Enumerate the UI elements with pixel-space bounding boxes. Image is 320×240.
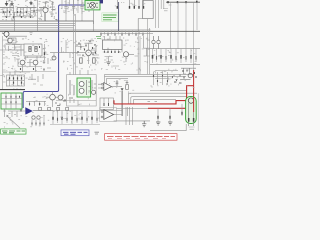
right rail y48.5 (150, 48, 200, 50)
parts in green box grid (1, 93, 22, 109)
resistor R10 (29, 47, 31, 52)
wire y66.5 under transistors (18, 66, 42, 68)
label specks right caps (154, 50, 197, 64)
right mid rail y90.6 (150, 90, 186, 92)
parts left of Q4 (78, 40, 100, 55)
label text specks top-left (1, 0, 59, 20)
connector arrow C top-left (30, 1, 32, 5)
bottom right rail (150, 124, 186, 131)
connector blue square (100, 0, 103, 3)
label blue bottom-middle (61, 130, 89, 136)
wire top-right rail (166, 1, 200, 3)
right cluster stems (154, 72, 170, 85)
bottom caps bodies B (58, 118, 98, 121)
label specks left block (0, 72, 27, 90)
parts right of U2 (116, 80, 129, 86)
label numbers above red line (148, 100, 158, 102)
transistor Q9 (92, 90, 96, 94)
transistor Q12 (8, 38, 13, 43)
blobs right of green box (30, 103, 40, 105)
component ticks in box (30, 46, 40, 50)
resistor on rail D (66, 108, 69, 111)
wire grey y108.3 segment (117, 107, 149, 109)
wire double vertical x73-75 (74, 0, 76, 75)
wire x127.5 vertical (127, 107, 129, 116)
label right-top specks (163, 5, 172, 11)
wire y36 left (9, 35, 27, 37)
wire Q2 Q3 legs (14, 59, 36, 72)
left block box (7, 75, 25, 86)
wires module top (70, 70, 88, 103)
wire Q6 leads (46, 92, 58, 108)
wire left edge vertical (2, 36, 4, 90)
op-amp U4 (104, 110, 114, 120)
thick dark wire y89.5 (0, 89, 25, 91)
wire U4 out (114, 115, 150, 121)
cluster right parts (180, 68, 196, 79)
capacitor C4 (80, 0, 83, 14)
red net lower path (148, 104, 187, 108)
electrolytic stems right (153, 49, 197, 63)
wire y57.5 below box (24, 57, 46, 59)
wire into module (138, 19, 142, 32)
ground below IC (106, 62, 110, 65)
bus line5 (0, 29, 151, 31)
wire stubs Q4 cluster (76, 41, 100, 58)
resistor on rail C (57, 108, 60, 111)
red net main path (114, 86, 194, 104)
nested wire 1 (128, 93, 197, 104)
lamp box highlight (85, 1, 100, 10)
label green specks x97 y37 (96, 37, 101, 39)
label specks IC area (100, 37, 149, 71)
bus mid-right 1 (105, 73, 194, 75)
bus line3 (0, 25, 75, 27)
resistor R12 (80, 58, 83, 63)
lamp symbol (87, 2, 98, 8)
wire vertical x62 x69 x78 (62, 0, 82, 21)
wire right y70 (155, 70, 178, 72)
connector arrow A top-left (5, 1, 8, 6)
ground rail dark (0, 30, 200, 32)
box above red label (100, 98, 113, 109)
component blobs under Q2 Q3 (21, 68, 45, 71)
bus line6 (100, 32, 153, 34)
green box left (1, 93, 22, 109)
IC U1 pins (105, 36, 121, 53)
label specks bottom mid (53, 111, 99, 123)
label specks bottom left (4, 111, 50, 128)
electrolytic bodies A (153, 55, 192, 59)
wire x155-163 verticals (156, 0, 164, 28)
left block grid (7, 75, 25, 86)
right cluster blobs (154, 75, 168, 82)
label specks right of green box (33, 94, 48, 105)
bus corners into opamp (105, 74, 107, 84)
caps below U3 bodies (32, 123, 44, 125)
component row bodies (101, 34, 143, 36)
parts left of U3 (3, 109, 25, 117)
resistor on rail A (39, 108, 42, 111)
wire top-left rail y7.5 (0, 7, 44, 9)
bottom caps bodies A (53, 117, 92, 120)
parts right mid x143 (135, 36, 151, 56)
parts right of mid green box (92, 80, 96, 90)
bottom caps stems (53, 111, 97, 125)
label green bottom-left (1, 129, 26, 134)
wire mid stubs (54, 40, 70, 58)
wire right edge vertical (197, 93, 199, 131)
parts below IC (104, 57, 119, 67)
wires bottom-mid verticals (126, 107, 133, 125)
transistor Q6b (58, 95, 63, 100)
bus line2 (0, 23, 75, 25)
component dark marks right cluster (183, 70, 196, 79)
left block blobs (10, 77, 22, 83)
op-amp U2 (104, 83, 112, 91)
capacitor C3 (72, 0, 75, 14)
transistor Q1 (43, 7, 48, 12)
op-amp U4 box (100, 108, 117, 122)
transistor Q2 (20, 60, 25, 65)
label specks right cluster (150, 68, 194, 87)
wire Q1 leads (36, 2, 49, 21)
component X mark y100 (64, 99, 66, 101)
label green note (102, 13, 119, 22)
wire mini-lines left-mid (5, 44, 20, 56)
nested wire 3 (133, 99, 176, 104)
bus mid-right 3 (107, 77, 129, 79)
parts below Q6 (56, 101, 66, 106)
label specks top-mid (61, 1, 84, 16)
wire y100.3 below Q6 (56, 100, 96, 106)
op-amp U3 blue (25, 107, 33, 114)
bus line4 (0, 27, 74, 29)
circle in pill (188, 98, 193, 103)
wire x44.5 vertical (44, 44, 46, 60)
parts in box (104, 103, 109, 106)
component X marks left of U3 (7, 110, 23, 117)
bottom rail y110.3 (33, 110, 122, 112)
IC U1 box (103, 40, 123, 49)
parts in green box mid (87, 80, 91, 95)
capacitor C2 (64, 0, 67, 14)
connector arrow B top-left (11, 1, 14, 6)
transistor Q7 (79, 82, 84, 87)
resistor R11 (35, 47, 37, 52)
component box left-mid (8, 38, 16, 43)
resistor R20 (126, 85, 129, 90)
wire y50 left (0, 49, 24, 51)
net stubs on left edge (3, 40, 6, 82)
bus mid-right 2 (105, 75, 187, 77)
ground G2 (156, 122, 160, 125)
label specks mid (61, 38, 98, 71)
wire blue signal path (23, 5, 85, 108)
op-amp U4 inputs (101, 111, 103, 118)
wire vertical x147 pair (148, 19, 150, 74)
wire verticals through bus (15, 12, 94, 31)
wire y71.5 long (14, 71, 56, 73)
right rail y64.5 (150, 64, 200, 66)
label red bottom-right (105, 134, 177, 141)
electrolytic bodies B (157, 56, 197, 60)
stems in box (104, 98, 109, 103)
wire y52.5 mid (50, 52, 85, 54)
connector pin heads (117, 6, 143, 9)
transistor Q8 (79, 88, 84, 93)
nested wire 2 (131, 97, 186, 104)
caps below U3 stems (32, 116, 44, 126)
component cluster x50-57 top (50, 2, 55, 17)
wire double vertical x138 (138, 31, 140, 74)
IC pin blobs (105, 51, 119, 53)
resistor R13 (93, 58, 96, 63)
red wire inside pill (193, 97, 195, 112)
label specks U2 area (105, 80, 134, 94)
wire U3 out (33, 110, 53, 112)
component dark ticks Q4 cluster (78, 41, 96, 57)
wire top-left rail y17 (2, 16, 34, 18)
green pill highlight (186, 97, 197, 124)
diode pair in pill (189, 118, 194, 122)
component blobs top-left (4, 10, 35, 18)
node blobs on rail (168, 1, 197, 4)
bus top dark (0, 20, 94, 22)
component row stems (101, 31, 143, 36)
wire dark vertical x118 (118, 2, 120, 31)
transistor Q3b (52, 56, 56, 60)
label specks under Q2 (4, 61, 42, 71)
wire mid-left h (6, 43, 37, 61)
component blob x44.5 (44, 52, 46, 55)
capacitor marks x44-52 (43, 58, 53, 68)
wire U2 out (111, 86, 122, 88)
resistor on rail B (48, 108, 51, 111)
wire top-left verticals (3, 0, 41, 21)
parts right of green box (26, 101, 46, 106)
red net right vertical (114, 70, 194, 112)
wire right long verticals (171, 2, 198, 70)
transistor Q11 below rail (2, 32, 9, 39)
label specks bottom-right (189, 127, 195, 129)
label grey JaF (95, 132, 100, 134)
diode D1 (121, 88, 124, 91)
wire above left block (3, 72, 30, 75)
ground G3 (168, 122, 172, 125)
caps bottom right bodies (158, 112, 182, 119)
wire Q4 leads (85, 43, 96, 64)
transistor Q3 (33, 60, 38, 65)
op-amp U2 inputs (101, 83, 103, 89)
transistor Q5 (123, 52, 128, 57)
wire x122 dark (121, 91, 123, 116)
transistor Q10 (188, 73, 192, 77)
wire top-left rail y12 (0, 11, 38, 13)
green box mid (77, 78, 91, 97)
ground G1 (142, 121, 146, 127)
parts module left column (69, 80, 74, 98)
label specks y33 (30, 33, 33, 35)
caps bottom right stems (158, 104, 182, 122)
bottom rail y124.5 (50, 124, 100, 126)
component marks x172-182 (173, 75, 182, 84)
wire below lamp (89, 10, 94, 24)
transistor Q6 (50, 94, 56, 100)
wire U2 inputs (98, 84, 101, 88)
connector pins (117, 0, 143, 8)
label specks module (69, 83, 97, 106)
diode pair in pill stems (189, 103, 194, 126)
component box left-mid2 (24, 44, 42, 56)
label specks top-mid2 (115, 2, 146, 6)
transistor pair below U3 (32, 116, 40, 119)
transistor Q4 (86, 50, 92, 56)
diagonal wire (7, 116, 20, 128)
transistor pair right-top (152, 36, 160, 49)
module outline mid (67, 75, 97, 106)
parts in green box blobs (6, 96, 20, 103)
wire Q5 leads (122, 49, 134, 62)
label specks left-mid (3, 38, 49, 59)
module box (143, 1, 154, 19)
parts mid-gap x28-46 (28, 74, 43, 85)
